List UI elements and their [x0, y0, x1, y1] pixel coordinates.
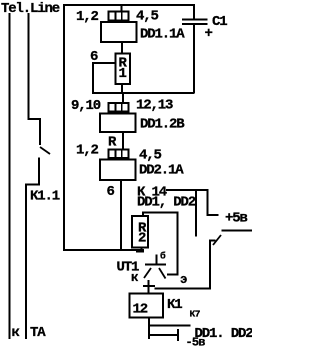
transistor base bar — [145, 264, 166, 266]
svg-text:К7: К7 — [190, 309, 201, 320]
wire +5v branch horizontal — [207, 214, 219, 216]
relay contact K1 slash — [213, 235, 221, 245]
svg-text:1: 1 — [119, 66, 127, 82]
wire emitter riser elbow — [167, 274, 179, 276]
wire collector to contact horizontal — [155, 288, 212, 290]
wire line 2 lower contact post — [38, 158, 40, 185]
relay contact K1 corner post horizontal — [209, 239, 216, 241]
wire R1 bottom to bus — [121, 85, 123, 94]
gate DD1.2B body — [100, 114, 136, 133]
gate DD1.1A body — [101, 22, 137, 42]
svg-text:к: к — [12, 325, 20, 341]
svg-text:4,5: 4,5 — [136, 9, 159, 25]
capacitor C1 bottom plate — [182, 23, 208, 25]
wire pin6 loop horizontal — [92, 62, 115, 64]
svg-text:к: к — [131, 271, 139, 285]
wire pin6 loop vertical — [92, 62, 94, 93]
wire telephone line 1 (left vertical) — [9, 13, 11, 339]
wire middle bus — [92, 92, 195, 94]
svg-text:9,10: 9,10 — [71, 98, 101, 114]
svg-text:1,2: 1,2 — [76, 143, 99, 159]
wire R2 bottom T-bar — [136, 251, 144, 253]
svg-text:б: б — [160, 251, 166, 262]
wire to -5v horizontal — [148, 334, 177, 336]
wire +5v branch vertical — [207, 189, 209, 216]
svg-text:4,5: 4,5 — [139, 148, 162, 164]
transistor emitter diagonal — [159, 268, 166, 279]
op-amp DD1.1A input pin group — [108, 11, 128, 22]
svg-text:DD1.2B: DD1.2B — [140, 117, 185, 133]
relay contact K1 post vertical — [209, 239, 211, 289]
wire bottom rail (left border to R2 bottom) — [63, 249, 144, 251]
wire K1 bottom lead — [148, 319, 150, 340]
capacitor C1 top plate — [182, 18, 208, 20]
svg-text:2: 2 — [138, 231, 146, 247]
svg-text:К1: К1 — [167, 297, 182, 313]
wire telephone line 2 bottom segment — [25, 184, 27, 340]
svg-text:6: 6 — [107, 184, 115, 200]
wire collector T-bar — [143, 285, 155, 287]
svg-text:+5в: +5в — [225, 211, 248, 227]
wire C1 bottom lead to bus — [193, 25, 195, 93]
gate DD1.2B input pin group — [108, 102, 128, 113]
wire К14 vertical drop — [195, 189, 197, 237]
transistor collector diagonal — [144, 268, 151, 278]
svg-text:12,13: 12,13 — [136, 98, 173, 114]
wire line 2 upper contact post — [39, 118, 41, 145]
svg-text:+: + — [205, 26, 213, 42]
wire emitter riser vertical — [177, 212, 179, 276]
wire К14 horizontal — [166, 189, 209, 191]
wire R2 top stub — [142, 212, 144, 217]
transistor base lead — [156, 255, 158, 265]
wire bus to DD1.2B input pins — [122, 94, 124, 102]
svg-text:1,2: 1,2 — [76, 9, 99, 25]
wire R2 top horizontal — [142, 212, 179, 214]
svg-text:C1: C1 — [212, 14, 227, 30]
svg-text:R: R — [108, 135, 117, 151]
resistor R2 — [132, 216, 148, 248]
wire collector lead to relay coil — [148, 280, 150, 294]
wire DD2.1A output down to bottom rail — [120, 181, 122, 251]
wire C1 top lead — [193, 6, 195, 19]
wire from top rail to DD1.1A input pins — [121, 5, 123, 11]
svg-text:-5в: -5в — [186, 336, 206, 348]
wire jog left of line 2 — [25, 184, 40, 186]
svg-text:DD1, DD2: DD1, DD2 — [137, 195, 196, 211]
wire to DD1 DD2 supply pins — [148, 325, 191, 327]
wire jog right of line 2 — [28, 118, 42, 120]
resistor R1 — [116, 54, 131, 85]
terminal bar -5v — [177, 329, 179, 341]
wire +5v contact rail — [222, 230, 253, 232]
svg-text:DD2.1A: DD2.1A — [139, 163, 184, 179]
wire telephone line 2 top segment — [28, 13, 30, 119]
wire R2 bottom stub — [141, 248, 143, 251]
wire left border rail — [63, 4, 65, 251]
switch contact K1.1 arm (diagonal) — [40, 147, 50, 154]
svg-text:12: 12 — [133, 302, 148, 318]
svg-text:К1.1: К1.1 — [30, 189, 60, 205]
wire DD1.1A output to R1 top — [121, 43, 123, 53]
gate DD2.1A body — [100, 160, 136, 181]
wire top rail — [63, 4, 195, 6]
gate DD2.1A input pin group — [108, 149, 128, 159]
svg-text:DD1.1A: DD1.1A — [140, 27, 185, 43]
relay coil K1 box — [130, 294, 164, 318]
svg-text:ТА: ТА — [30, 325, 46, 341]
wire DD1.2B output to DD2.1A inputs — [122, 133, 124, 149]
svg-text:э: э — [180, 273, 188, 287]
